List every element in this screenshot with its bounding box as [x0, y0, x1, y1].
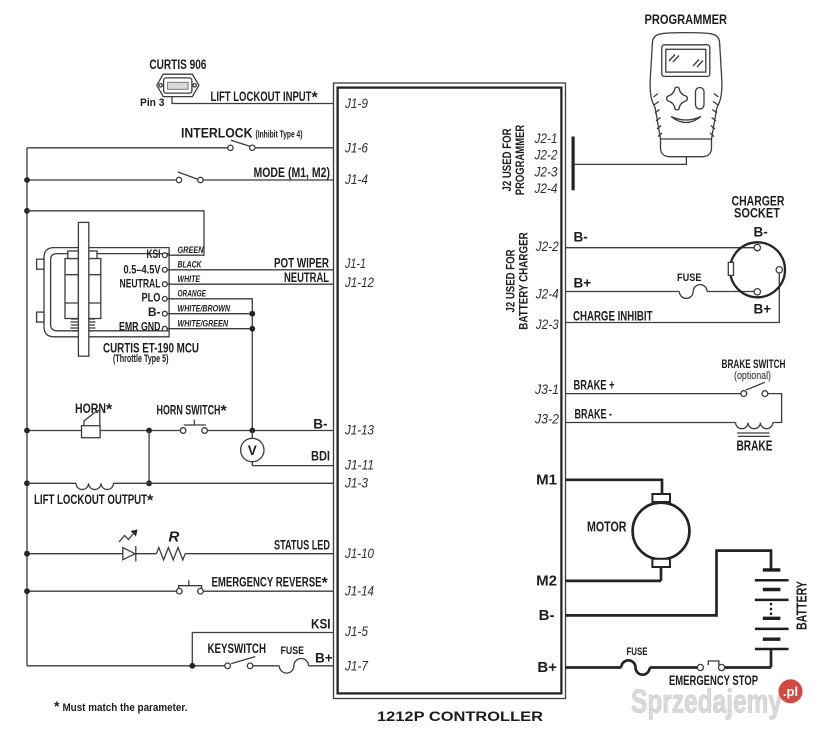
svg-text:B+: B+	[315, 651, 333, 666]
svg-text:J1-7: J1-7	[344, 658, 369, 674]
wire interlock right segment to J1-6	[255, 147, 334, 149]
throttle terminal NEUTRAL	[120, 277, 168, 291]
svg-text:J1-4: J1-4	[344, 171, 368, 187]
svg-text:PLO: PLO	[142, 291, 161, 305]
battery BT1 plates	[755, 570, 789, 649]
svg-text:GREEN: GREEN	[178, 245, 205, 256]
switch horn pushbutton	[180, 420, 207, 434]
throttle terminal B-	[148, 305, 167, 319]
svg-text:J2 USED FOR: J2 USED FOR	[500, 128, 514, 191]
junction keyswitch line KSI drop	[189, 663, 195, 669]
svg-text:M2: M2	[536, 573, 557, 590]
svg-text:0.5–4.5V: 0.5–4.5V	[124, 263, 161, 277]
net label CHARGER SOCKET	[732, 194, 785, 221]
wire B+ to fuse	[566, 666, 622, 669]
charger socket pin inhibit	[776, 267, 782, 273]
svg-text:(optional): (optional)	[734, 370, 771, 382]
svg-text:LIFT LOCKOUT INPUT*: LIFT LOCKOUT INPUT*	[211, 89, 319, 107]
svg-text:J1-10: J1-10	[344, 545, 374, 561]
svg-text:EMR GND: EMR GND	[119, 320, 161, 334]
svg-text:B-: B-	[148, 305, 161, 319]
throttle pot column right	[89, 259, 101, 319]
junction white/green B- bus	[249, 326, 255, 332]
throttle terminal 0.5-4.5V	[124, 263, 168, 277]
throttle TH1 housing outer	[44, 248, 169, 337]
svg-text:BRAKE: BRAKE	[737, 438, 773, 455]
svg-text:BRAKE SWITCH: BRAKE SWITCH	[722, 357, 786, 371]
motor M terminal bottom	[652, 559, 670, 567]
controller U1 1212P outer border	[334, 83, 566, 699]
svg-text:MOTOR: MOTOR	[587, 519, 627, 536]
svg-text:SOCKET: SOCKET	[734, 206, 781, 221]
junction bus-ksi-green	[24, 208, 30, 214]
svg-text:J2-3: J2-3	[534, 163, 558, 179]
svg-text:KSI: KSI	[147, 247, 161, 261]
svg-text:B-: B-	[313, 417, 327, 432]
throttle lever	[78, 222, 88, 356]
svg-text:ORANGE: ORANGE	[178, 289, 207, 300]
junction J1-3 line	[146, 480, 152, 486]
svg-text:HORN SWITCH*: HORN SWITCH*	[157, 403, 228, 421]
svg-text:J3-2: J3-2	[534, 411, 559, 427]
svg-text:FUSE: FUSE	[281, 645, 305, 657]
throttle pot top tab right	[89, 251, 97, 259]
wire resistor to J1-10	[185, 553, 333, 555]
controller U1 1212P inner border	[338, 88, 562, 694]
wire bus to emergency reverse switch	[27, 590, 177, 592]
wire interlock left segment	[27, 147, 228, 149]
svg-text:POT WIPER: POT WIPER	[274, 256, 329, 271]
svg-text:STATUS LED: STATUS LED	[274, 538, 330, 553]
fuse F2 charger	[679, 285, 707, 299]
wire charge inhibit to J2-3	[566, 273, 780, 323]
voltmeter BDI V	[241, 438, 264, 461]
wire fuse to J1-7	[309, 665, 334, 667]
LED D1	[119, 530, 138, 562]
svg-text:KSI: KSI	[311, 617, 331, 632]
svg-text:BLACK: BLACK	[178, 260, 203, 271]
wire junction to voltmeter	[251, 431, 253, 439]
wire coil to J1-3	[114, 482, 334, 484]
svg-text:J1-14: J1-14	[344, 583, 374, 599]
svg-text:HORN*: HORN*	[75, 401, 113, 419]
inductor lift lockout output coil	[76, 483, 114, 489]
motor M body	[633, 503, 690, 560]
wire bus to status LED	[27, 553, 123, 555]
svg-text:B+: B+	[574, 276, 592, 291]
switch interlock	[228, 140, 255, 150]
svg-text:EMERGENCY REVERSE*: EMERGENCY REVERSE*	[212, 575, 329, 593]
switch emergency stop	[697, 661, 724, 671]
wire fuse to emergency stop	[650, 666, 697, 669]
wire neutral white to J1-12	[167, 283, 333, 285]
wire charger B- to J2-2	[566, 247, 755, 249]
svg-text:V: V	[248, 443, 257, 458]
wire KSI green	[27, 211, 204, 255]
throttle spring	[71, 319, 96, 331]
wire bus to lift lockout coil	[27, 482, 76, 484]
junction bus J1-3	[24, 480, 30, 486]
svg-text:INTERLOCK(Inhibit Type 4): INTERLOCK(Inhibit Type 4)	[181, 126, 303, 141]
throttle pot column left	[65, 259, 78, 319]
svg-text:BRAKE +: BRAKE +	[574, 378, 615, 393]
switch brake	[741, 382, 768, 396]
connector bar J2 programmer cable	[572, 137, 575, 191]
switch keyswitch	[225, 657, 256, 669]
svg-text:PROGRAMMER: PROGRAMMER	[645, 12, 728, 27]
wire left bus vertical	[26, 148, 28, 666]
junction bus-mode	[24, 177, 30, 183]
switch emergency reverse pushbutton	[177, 580, 204, 594]
svg-text:J2-2: J2-2	[534, 147, 558, 163]
svg-text:J2-4: J2-4	[535, 285, 559, 301]
svg-text:CURTIS 906: CURTIS 906	[149, 57, 206, 72]
wire B- to battery top	[566, 551, 772, 616]
fuse F1 keyswitch	[279, 659, 308, 674]
junction bus emergency reverse	[24, 588, 30, 594]
wire horn switch to J1-13	[207, 430, 333, 432]
throttle pot top tab left	[68, 251, 79, 259]
svg-text:J2-4: J2-4	[534, 180, 558, 196]
wire emergency stop to battery	[725, 666, 771, 669]
svg-text:J1-9: J1-9	[344, 95, 368, 111]
svg-text:NEUTRAL: NEUTRAL	[284, 270, 329, 285]
svg-text:MODE (M1, M2): MODE (M1, M2)	[254, 165, 331, 180]
wire brake- J3-2 to coil	[566, 422, 736, 424]
programmer smile slot	[671, 117, 701, 123]
svg-text:BATTERY CHARGER: BATTERY CHARGER	[517, 232, 531, 330]
net label J2 USED FOR PROGRAMMER	[500, 124, 527, 195]
wire battery bottom to B+ line	[770, 649, 773, 668]
throttle terminal PLO	[142, 291, 168, 305]
svg-text:BRAKE -: BRAKE -	[575, 407, 613, 422]
wire charger B+ to J2-4	[566, 291, 680, 293]
svg-text:FUSE: FUSE	[677, 272, 702, 284]
throttle terminal KSI	[147, 247, 168, 261]
charger socket key notch	[728, 262, 733, 275]
svg-text:M1: M1	[536, 472, 557, 489]
svg-text:B-: B-	[539, 607, 555, 624]
programmer side button	[696, 88, 705, 110]
charger socket pin B+	[754, 289, 760, 295]
wire mode right segment to J1-4	[203, 179, 333, 181]
charger socket pin B-	[754, 244, 760, 250]
svg-text:WHITE/BROWN: WHITE/BROWN	[178, 304, 231, 315]
svg-text:R: R	[169, 529, 180, 546]
wire drop horn line to J1-3 line	[148, 431, 150, 484]
net label BRAKE SWITCH (optional)	[722, 357, 786, 382]
connector CN1 CURTIS 906 body	[157, 74, 199, 96]
svg-text:J2-2: J2-2	[535, 238, 559, 254]
wire programmer cable	[575, 153, 687, 165]
svg-text:WHITE: WHITE	[178, 274, 201, 285]
svg-text:KEYSWITCH: KEYSWITCH	[208, 641, 267, 656]
wire bus corner to keyswitch	[27, 665, 225, 667]
throttle mounting tab upper	[37, 259, 44, 269]
junction bus status LED	[24, 551, 30, 557]
svg-text:J2 USED FOR: J2 USED FOR	[504, 249, 518, 312]
svg-text:J1-6: J1-6	[344, 139, 368, 155]
svg-text:Pin 3: Pin 3	[140, 97, 165, 109]
wire pot wiper black to J1-1	[167, 269, 333, 271]
svg-text:LIFT LOCKOUT OUTPUT*: LIFT LOCKOUT OUTPUT*	[34, 492, 154, 510]
junction horn line to J1-3 drop	[146, 428, 152, 434]
wire fuse to charger B+ pin	[707, 291, 754, 293]
svg-text:J1-12: J1-12	[344, 274, 374, 290]
watermark pl badge	[779, 679, 803, 703]
svg-text:CHARGE INHIBIT: CHARGE INHIBIT	[573, 309, 653, 324]
motor M terminal top	[652, 494, 670, 502]
svg-text:BATTERY: BATTERY	[794, 581, 811, 630]
programmer d-pad	[667, 87, 688, 110]
junction bus B- row	[24, 428, 30, 434]
svg-text:J1-13: J1-13	[344, 422, 374, 438]
wire keyswitch to fuse	[253, 665, 279, 667]
svg-text:BDI: BDI	[311, 449, 330, 464]
svg-text:Sprzedajemy: Sprzedajemy	[631, 683, 782, 720]
wire M1 to motor	[566, 480, 663, 494]
switch mode	[176, 172, 203, 183]
junction white/brown B- bus	[249, 311, 255, 317]
wire KSI row to J1-5	[192, 633, 333, 666]
svg-text:J1-1: J1-1	[344, 255, 366, 271]
throttle terminal EMR GND	[119, 320, 167, 334]
svg-text:B+: B+	[537, 659, 557, 676]
programmer screen	[662, 45, 710, 77]
throttle TH1 housing inner wall	[51, 254, 170, 331]
fuse F3 main B+	[621, 660, 649, 674]
wire lift lockout input to J1-9	[172, 97, 334, 104]
wire horn to horn switch	[100, 430, 180, 432]
charger socket J4 outline	[730, 242, 785, 297]
wire LED to resistor	[136, 553, 157, 555]
junction B- bus at J1-13 line	[249, 428, 255, 434]
programmer handset body	[650, 33, 722, 157]
svg-text:B-: B-	[754, 225, 768, 240]
wire B- white/brown	[167, 313, 252, 315]
svg-text:.pl: .pl	[783, 684, 798, 699]
net label J2 USED FOR BATTERY CHARGER	[504, 232, 531, 330]
wire emergency reverse to J1-14	[203, 590, 333, 592]
wire brake+ J3-1 to switch	[566, 393, 741, 395]
wire B- row bus to horn	[27, 430, 82, 432]
programmer side grips	[654, 94, 719, 137]
horn LS1	[82, 411, 101, 438]
svg-text:B+: B+	[754, 302, 772, 317]
throttle mounting tab lower	[37, 312, 44, 322]
svg-text:J1-11: J1-11	[344, 457, 374, 473]
svg-text:J2-1: J2-1	[534, 130, 558, 146]
svg-text:PROGRAMMER: PROGRAMMER	[513, 124, 527, 195]
wire PLO orange	[167, 299, 252, 431]
svg-text:B-: B-	[574, 230, 588, 245]
svg-text:J3-1: J3-1	[534, 381, 559, 397]
wire mode left segment	[27, 179, 176, 181]
svg-text:J2-3: J2-3	[535, 316, 559, 332]
wire M2 to motor	[566, 567, 662, 581]
wire voltmeter to J1-11	[252, 462, 333, 466]
svg-text:J1-3: J1-3	[344, 474, 368, 490]
svg-text:WHITE/GREEN: WHITE/GREEN	[178, 319, 229, 330]
svg-text:J1-5: J1-5	[344, 623, 368, 639]
svg-text:1212P CONTROLLER: 1212P CONTROLLER	[377, 709, 543, 724]
inductor brake coil	[736, 423, 773, 429]
resistor R1	[156, 548, 185, 560]
wire EMR GND white/green	[167, 328, 252, 330]
brake coil core lines	[737, 433, 770, 436]
svg-text:(Throttle Type 5): (Throttle Type 5)	[113, 353, 169, 365]
throttle pot segment lines	[65, 275, 101, 303]
wire brake switch to coil	[768, 394, 782, 423]
svg-text:FUSE: FUSE	[627, 646, 648, 658]
svg-text:NEUTRAL: NEUTRAL	[120, 277, 161, 291]
